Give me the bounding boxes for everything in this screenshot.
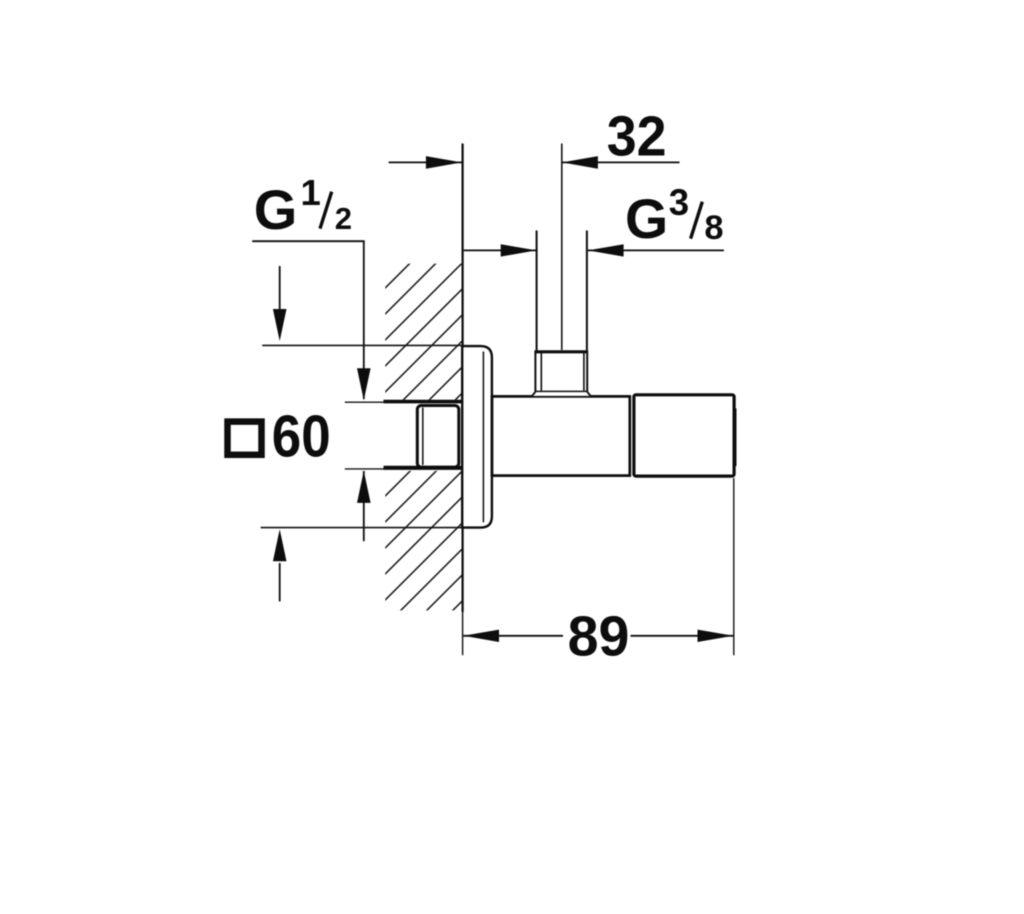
wall edge line (462, 144, 464, 656)
G1/2 leader vertical (363, 241, 365, 399)
dim 60 up arrow (273, 529, 287, 561)
wall flange (escutcheon) (462, 346, 492, 527)
label G1/2 (254, 172, 352, 241)
supply pipe in wall (384, 400, 462, 471)
dim 89 left arrow (463, 630, 499, 642)
dim G3/8 left line (464, 249, 537, 251)
top pipe center line (561, 144, 563, 351)
G1/2 leader horizontal (252, 240, 365, 242)
svg-text:89: 89 (568, 605, 630, 669)
dim 89 line left (463, 635, 563, 637)
wall hatching (53, 250, 813, 620)
dim 32 left arrow (426, 156, 462, 169)
svg-text:60: 60 (272, 403, 331, 470)
label G3/8 (625, 182, 724, 250)
svg-text:32: 32 (607, 104, 667, 168)
dim G3/8 right arrow (588, 244, 624, 256)
pipe thread extension line top (345, 401, 385, 403)
dim 32 left line (389, 161, 462, 163)
dim G3/8 right line (588, 249, 724, 251)
dim 60 upper leg (279, 266, 281, 310)
valve body (492, 396, 630, 475)
supply pipe nut (417, 406, 459, 468)
flange inner highlight line (482, 352, 484, 523)
flange top extension line (262, 344, 462, 346)
pipe thread extension line bottom (345, 468, 385, 470)
G1/2 up arrow (357, 471, 371, 503)
svg-text:2: 2 (335, 201, 352, 236)
dim G3/8 left arrow (501, 244, 537, 256)
svg-text:G: G (625, 188, 668, 250)
dim 89 line right (631, 635, 734, 637)
handle (634, 395, 736, 476)
dim 32 right line (562, 161, 680, 163)
dim 60 down arrow (273, 309, 287, 341)
handle extension line down (733, 478, 735, 655)
svg-text:8: 8 (704, 209, 723, 247)
svg-text:G: G (254, 178, 298, 241)
flange bottom extension line (261, 527, 462, 529)
G1/2 down arrow (357, 368, 371, 400)
top pipe left edge (536, 231, 538, 351)
dim 32 right arrow (562, 156, 598, 169)
svg-text:3: 3 (669, 182, 689, 223)
dim 89 right arrow (698, 630, 734, 642)
outlet nut G3/8 (532, 350, 590, 396)
svg-text:1: 1 (301, 172, 321, 213)
G1/2 lower leg (363, 471, 365, 541)
square symbol (228, 422, 262, 455)
dim 60 lower leg (279, 563, 281, 601)
top pipe right edge (586, 231, 588, 351)
